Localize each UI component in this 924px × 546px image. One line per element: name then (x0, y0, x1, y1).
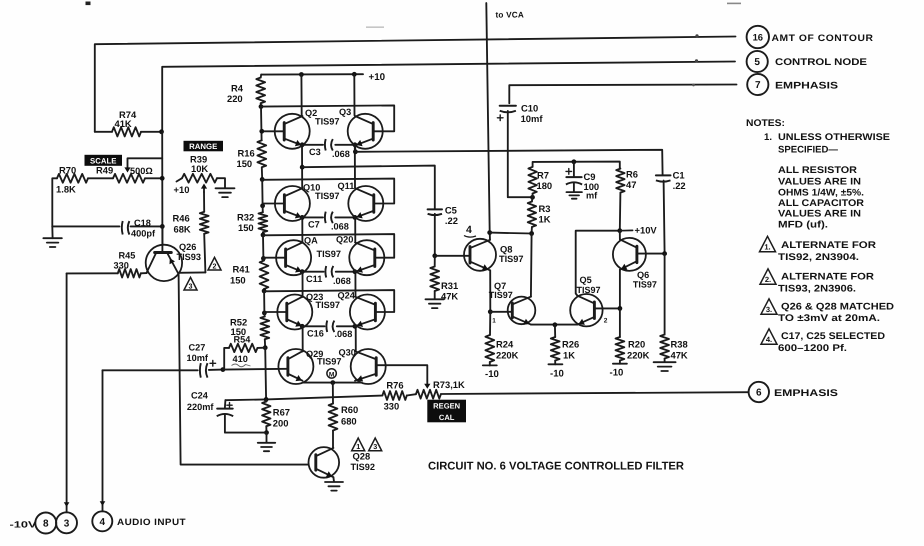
svg-text:CONTROL NODE: CONTROL NODE (775, 57, 868, 68)
svg-text:5: 5 (754, 57, 760, 68)
svg-text:C27: C27 (189, 343, 206, 353)
svg-text:R73,1K: R73,1K (433, 379, 465, 390)
svg-text:10mf: 10mf (521, 113, 544, 124)
terminal 4 AUDIO INPUT (92, 511, 112, 531)
transistor Q24 TIS97 (right) (350, 295, 385, 330)
resistor R38 47K (664, 254, 666, 335)
triangle note marker 3 (761, 299, 777, 314)
svg-text:TIS97: TIS97 (317, 249, 342, 259)
svg-text:47K: 47K (671, 350, 688, 361)
wire terminal-3 riser (67, 272, 118, 274)
wire emphasis-7 to C10 (509, 85, 736, 104)
wire rung4 bases (264, 290, 394, 312)
svg-text:500Ω: 500Ω (130, 166, 153, 176)
svg-text:R54: R54 (234, 334, 252, 344)
node rail rung3 bases (261, 233, 266, 238)
svg-text:TIS97: TIS97 (316, 300, 341, 310)
svg-text:1K: 1K (539, 214, 551, 225)
ground below Q28 emitter (332, 477, 335, 481)
wire rail bottom to R67 node (264, 348, 267, 400)
wire Q8 emitter down (489, 270, 491, 312)
resistor R31 47K (430, 267, 439, 292)
transistor Q6 TIS97 (613, 238, 646, 271)
node rail rung2 bases (260, 177, 265, 182)
svg-text:TIS93, 2N3906.: TIS93, 2N3906. (778, 284, 856, 295)
svg-text:330: 330 (384, 401, 400, 412)
wire rung1 emitter row (302, 144, 323, 146)
svg-text:Q26: Q26 (179, 242, 196, 252)
svg-text:+10V: +10V (635, 225, 658, 236)
node C24-R67 bottom (264, 430, 269, 435)
svg-text:1.: 1. (764, 243, 770, 252)
wire to VCA vertical (486, 3, 489, 233)
svg-text:TO ±3mV at 20mA.: TO ±3mV at 20mA. (778, 313, 880, 324)
svg-text:2: 2 (213, 261, 217, 270)
node +10 Q2 collector (299, 72, 304, 77)
capacitor C9 100mf (572, 159, 577, 164)
svg-text:R41: R41 (233, 264, 250, 275)
svg-text:41K: 41K (115, 118, 132, 129)
wire Q8 collector up (489, 233, 491, 240)
wire rung3 bases (263, 234, 394, 258)
svg-text:R20: R20 (628, 339, 645, 350)
svg-text:47: 47 (626, 179, 636, 190)
svg-text:R24: R24 (496, 339, 514, 350)
node rail R54 junction (263, 345, 268, 350)
svg-text:R16: R16 (238, 148, 255, 159)
svg-text:R67: R67 (273, 407, 290, 418)
svg-text:410: 410 (233, 354, 248, 364)
svg-text:150: 150 (230, 275, 246, 286)
node tap2 (300, 165, 305, 170)
svg-text:.068: .068 (333, 276, 351, 286)
transistor Q20 TIS97 (right) (349, 240, 384, 275)
scribble under 410 (232, 364, 251, 367)
svg-text:CAL: CAL (439, 413, 455, 422)
wire scale node vertical (161, 132, 163, 245)
svg-text:C17, C25 SELECTED: C17, C25 SELECTED (781, 331, 885, 342)
capacitor C24 220mf (224, 400, 227, 407)
node rail rung4 bases (262, 289, 267, 294)
svg-text:UNLESS OTHERWISE: UNLESS OTHERWISE (778, 132, 891, 143)
ground below R38 (654, 361, 676, 363)
wire Q23 base tap (264, 311, 286, 313)
svg-text:Q24: Q24 (338, 291, 356, 301)
svg-text:R4: R4 (231, 83, 244, 94)
node Q5 base / Q6 emitter (618, 306, 623, 311)
svg-text:C18: C18 (134, 218, 151, 228)
svg-text:EMPHASIS: EMPHASIS (774, 388, 839, 399)
node R3 bottom (529, 231, 534, 236)
resistor R24 220K (489, 312, 491, 335)
node C18 junction (160, 224, 165, 229)
svg-text:SPECIFIED—: SPECIFIED— (778, 145, 838, 156)
node R74-right junction (159, 129, 164, 134)
transistor QA TIS97 (left) (276, 240, 311, 275)
svg-text:68K: 68K (174, 224, 191, 235)
svg-text:-10: -10 (550, 369, 564, 380)
wire rung4 emitter row (302, 325, 325, 327)
svg-text:Q8: Q8 (500, 244, 513, 255)
wire decoupled supply node (533, 162, 620, 169)
node Q7 base junction (488, 309, 493, 314)
capacitor C3 .068 (324, 139, 327, 151)
svg-text:C7: C7 (308, 220, 320, 230)
svg-text:220K: 220K (627, 350, 650, 361)
wire R70-left down (52, 178, 57, 226)
svg-text:R49: R49 (96, 165, 113, 176)
svg-text:RANGE: RANGE (189, 142, 217, 151)
svg-text:16: 16 (753, 31, 763, 42)
node +10V (617, 228, 622, 233)
label RANGE (184, 141, 224, 152)
wire Q7 collector vertical (530, 234, 533, 297)
ground below R31 (425, 298, 444, 300)
svg-text:4: 4 (466, 224, 472, 236)
capacitor C27 10mf (103, 369, 198, 371)
node R67 top (264, 397, 269, 402)
svg-text:ALL RESISTOR: ALL RESISTOR (778, 165, 857, 176)
wire ladder left collector column (300, 75, 302, 117)
svg-text:R32: R32 (237, 212, 254, 223)
wire emphasis feedback to terminal 6 (441, 392, 749, 394)
terminal 7 EMPHASIS (747, 74, 768, 95)
svg-text:ALTERNATE FOR: ALTERNATE FOR (781, 240, 876, 251)
triangle note 3 at Q26 (184, 277, 197, 290)
capacitor C11 .068 (324, 266, 327, 278)
svg-text:R7: R7 (537, 170, 549, 181)
svg-text:220: 220 (227, 93, 243, 104)
ground below C9 (566, 191, 582, 193)
svg-text:7: 7 (755, 80, 761, 91)
wire amt-of-contour to top-left (95, 37, 736, 132)
svg-text:600–1200 Pf.: 600–1200 Pf. (778, 343, 847, 354)
svg-text:4: 4 (100, 517, 106, 528)
svg-text:TIS97: TIS97 (577, 285, 601, 295)
svg-text:M: M (329, 372, 335, 379)
capacitor C18 400pf (52, 225, 119, 227)
wire Q2 base tap (262, 130, 284, 132)
svg-text:6: 6 (756, 388, 762, 399)
svg-text:680: 680 (341, 416, 357, 427)
svg-text:-10: -10 (485, 369, 499, 380)
svg-text:R31: R31 (441, 280, 458, 291)
svg-text:ALL CAPACITOR: ALL CAPACITOR (778, 198, 864, 209)
wire Q30 base to regen wiper (376, 365, 427, 386)
transistor Q26 TIS93 (146, 245, 182, 281)
resistor R26 1K (554, 325, 556, 337)
svg-text:1.8K: 1.8K (56, 184, 76, 195)
svg-text:mf: mf (586, 191, 598, 201)
svg-text:TIS97: TIS97 (633, 280, 657, 290)
wire rung5 emitter joint (304, 382, 361, 384)
triangle note 1 at Q28 (352, 438, 365, 451)
wire terminal-4 riser audio input (102, 370, 104, 511)
svg-text:Q3: Q3 (339, 107, 351, 117)
node C27-R54 junction (221, 367, 226, 372)
svg-text:Q6: Q6 (637, 270, 649, 280)
node Q2 base (259, 129, 264, 134)
capacitor C16 .068 (325, 321, 328, 333)
wire feedback node row (225, 396, 382, 401)
wiper of R39 (203, 186, 205, 193)
svg-text:2.: 2. (765, 275, 771, 284)
ground below R70 (43, 237, 62, 239)
svg-text:3: 3 (64, 518, 70, 529)
wire Q26 collector down to Q28 base (179, 275, 308, 465)
svg-text:to VCA: to VCA (496, 11, 525, 20)
terminal 5 CONTROL NODE (747, 51, 768, 72)
svg-text:MFD (uf).: MFD (uf). (778, 220, 828, 231)
svg-text:R46: R46 (173, 213, 190, 224)
svg-text:3.: 3. (766, 305, 772, 314)
capacitor C7 .068 (324, 212, 327, 224)
svg-text:R45: R45 (119, 251, 136, 261)
triangle note marker 1 (760, 236, 776, 251)
terminal 3 (56, 512, 77, 533)
wire Q10 base tap (263, 203, 285, 205)
capacitor C10 10mf (500, 105, 516, 107)
capacitor C5 .22 (428, 208, 442, 210)
svg-text:220mf: 220mf (187, 402, 214, 412)
svg-text:.068: .068 (335, 329, 353, 339)
svg-text:AMT OF CONTOUR: AMT OF CONTOUR (772, 32, 874, 43)
node ladder top output (353, 149, 358, 154)
svg-text:+10: +10 (174, 184, 190, 195)
svg-text:AUDIO INPUT: AUDIO INPUT (117, 517, 186, 527)
node C5-R31-Q8 junction (432, 253, 437, 258)
svg-text:Q5: Q5 (580, 275, 592, 285)
wire ladder right collector column (353, 74, 355, 115)
resistor R60 680 (332, 383, 334, 404)
node R26 top (553, 322, 558, 327)
svg-text:TIS93: TIS93 (177, 252, 202, 262)
svg-text:1K: 1K (563, 350, 575, 361)
wire Q6 base to C1 column (637, 253, 665, 255)
node rail rung1 (259, 104, 264, 109)
svg-text:10mf: 10mf (187, 353, 209, 363)
svg-text:2: 2 (604, 318, 608, 325)
wire audio to Q29 base (223, 368, 288, 371)
triangle note marker 2 (760, 269, 776, 284)
resistor R67 200 (262, 402, 270, 427)
transistor Q2 TIS97 (left) (275, 114, 310, 149)
svg-text:TIS97: TIS97 (315, 191, 340, 201)
svg-text:Q11: Q11 (338, 181, 355, 191)
wire Q5 base to node (594, 307, 620, 309)
resistor R7 180 (528, 167, 536, 194)
node +10 Q3 collector (352, 72, 357, 77)
wire rung2 bases (262, 179, 394, 204)
transistor Q29 TIS97 (left) (278, 349, 313, 384)
ground at R39 right (217, 178, 225, 188)
scan speck (86, 2, 91, 6)
svg-text:C3: C3 (309, 147, 321, 157)
svg-text:C11: C11 (306, 274, 322, 284)
svg-text:OHMS 1/4W, ±5%.: OHMS 1/4W, ±5%. (778, 188, 864, 199)
svg-text:Q28: Q28 (353, 451, 371, 462)
svg-text:150: 150 (238, 222, 254, 233)
node rung5 emitters (330, 380, 335, 385)
svg-text:.068: .068 (332, 149, 350, 159)
svg-text:150: 150 (237, 158, 253, 169)
node Q8 collector / to VCA (487, 230, 492, 235)
svg-text:330: 330 (114, 260, 129, 270)
svg-text:TIS92: TIS92 (351, 462, 376, 472)
wire ladder output to C1 (355, 150, 662, 175)
svg-text:-10: -10 (610, 368, 624, 379)
svg-text:3: 3 (189, 281, 193, 290)
faint junction specks on top wires (695, 34, 698, 37)
svg-text:VALUES ARE IN: VALUES ARE IN (778, 209, 861, 220)
svg-text:200: 200 (273, 418, 289, 429)
svg-text:1.: 1. (764, 132, 772, 143)
svg-text:QA: QA (304, 235, 318, 245)
triangle note 2 at Q26 (208, 257, 221, 270)
svg-text:TIS97: TIS97 (317, 356, 342, 366)
svg-text:220K: 220K (496, 350, 519, 361)
svg-text:+10: +10 (369, 72, 386, 83)
svg-text:.22: .22 (673, 180, 686, 191)
label SCALE (85, 155, 123, 166)
wire tap2 to C5 (302, 166, 435, 210)
node Q6 base / C1 / R38 (662, 251, 667, 256)
svg-text:180: 180 (537, 180, 553, 191)
resistor R3 1K (528, 202, 536, 228)
transistor Q8 TIS97 (435, 255, 470, 257)
svg-text:R76: R76 (386, 380, 403, 391)
wire Q7-Q5 emitter row (531, 324, 577, 326)
transistor Q28 TIS92 (309, 447, 340, 478)
svg-text:-10V: -10V (10, 520, 37, 530)
svg-text:1: 1 (492, 318, 496, 325)
transistor Q3 TIS97 (right) (348, 114, 383, 149)
wire Q5 collector to +10V (576, 231, 620, 296)
transistor Q23 TIS97 (left) (277, 295, 312, 330)
triangle note marker 4 (761, 329, 777, 344)
svg-text:R38: R38 (671, 339, 688, 350)
transistor Q5 TIS97 (570, 294, 602, 326)
wire Q26 emitter to R46 (178, 271, 206, 273)
svg-text:.068: .068 (331, 222, 349, 232)
svg-text:REGEN: REGEN (433, 402, 460, 411)
+10 label at R39 (177, 178, 183, 181)
svg-text:10K: 10K (191, 163, 208, 174)
capacitor C1 .22 (656, 174, 671, 176)
wire Q6 emitter down (619, 270, 621, 309)
wire Q6 collector up (619, 231, 621, 240)
svg-text:ALTERNATE FOR: ALTERNATE FOR (781, 272, 874, 283)
triangle note 3 at Q28 (369, 438, 382, 451)
marker M matched pair (327, 369, 336, 378)
terminal 16 AMT OF CONTOUR (747, 26, 769, 48)
svg-text:TIS97: TIS97 (489, 290, 513, 300)
svg-text:.22: .22 (445, 215, 458, 226)
node rail Q23 base (262, 311, 267, 316)
svg-text:R60: R60 (341, 404, 358, 415)
transistor Q10 TIS97 (left) (275, 186, 310, 221)
wire rung2 emitter row (302, 216, 323, 218)
svg-text:4.: 4. (766, 335, 772, 344)
svg-text:400pf: 400pf (131, 229, 156, 239)
wiper of R49 (128, 158, 163, 170)
svg-text:TIS92, 2N3904.: TIS92, 2N3904. (778, 252, 859, 263)
resistor R6 47 (616, 169, 624, 193)
wire rung1 bases (261, 105, 394, 131)
svg-text:R3: R3 (539, 203, 551, 214)
svg-text:Q26 & Q28 MATCHED: Q26 & Q28 MATCHED (781, 302, 894, 313)
wire QA base tap (263, 257, 285, 259)
node rail Q10 base (260, 203, 265, 208)
svg-text:TIS97: TIS97 (499, 254, 524, 264)
svg-text:C24: C24 (191, 391, 209, 401)
svg-text:3: 3 (373, 442, 377, 451)
transistor Q11 TIS97 (right) (348, 186, 383, 221)
svg-text:EMPHASIS: EMPHASIS (775, 81, 839, 92)
svg-text:R6: R6 (626, 169, 638, 180)
transistor Q30 TIS97 (right) (351, 349, 386, 384)
svg-text:TIS97: TIS97 (315, 117, 340, 127)
svg-text:C16: C16 (307, 328, 324, 338)
resistor R74 41K (112, 127, 141, 136)
svg-text:CIRCUIT NO. 6 VOLTAGE CONTROLL: CIRCUIT NO. 6 VOLTAGE CONTROLLED FILTER (428, 461, 684, 473)
terminal 6 EMPHASIS (749, 382, 769, 402)
node R7-R3 junction (530, 195, 535, 200)
wire rung3 emitter row (302, 271, 324, 273)
svg-text:NOTES:: NOTES: (746, 118, 785, 129)
ground below R67 (266, 433, 268, 443)
svg-text:VALUES ARE IN: VALUES ARE IN (778, 176, 861, 187)
node R49 junction (160, 176, 165, 181)
resistor R20 220K (619, 308, 621, 337)
svg-text:Q20: Q20 (336, 234, 353, 244)
wire control-node to left vertical (162, 62, 735, 132)
svg-text:R26: R26 (562, 339, 579, 350)
svg-text:8: 8 (43, 519, 49, 530)
transistor Q7 TIS97 (490, 311, 512, 313)
node rail QA base (261, 256, 266, 261)
label REGEN CAL (427, 400, 466, 423)
+10 supply rail (261, 73, 363, 75)
